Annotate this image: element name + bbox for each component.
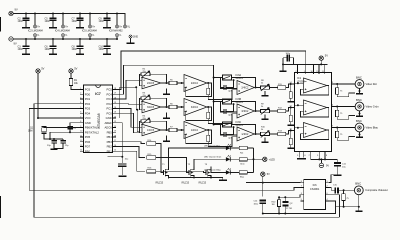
- op-amp 3/4IC2: [237, 104, 255, 118]
- capacitor C13 22p: [54, 139, 69, 149]
- svg-text:5V: 5V: [74, 67, 77, 71]
- ground: [262, 91, 269, 97]
- svg-text:CS4961: CS4961: [310, 187, 320, 191]
- resistor 75R output (row 3): [336, 128, 356, 141]
- node aux2: [136, 109, 138, 111]
- svg-text:23: 23: [114, 112, 116, 114]
- svg-text:19: 19: [114, 126, 116, 128]
- wire LED row to +LED rail: [247, 171, 253, 173]
- svg-text:6: 6: [305, 155, 306, 157]
- ground: [219, 179, 227, 181]
- op-amp 3/4IC4: [184, 99, 207, 116]
- wire pin1 to gnd node: [329, 175, 338, 183]
- node col2 in: [181, 129, 183, 131]
- analog switch IC3B 4066: [222, 98, 243, 104]
- svg-text:6: 6: [80, 112, 81, 114]
- wire IC1 top supply rail: [283, 63, 328, 65]
- svg-text:11: 11: [80, 135, 82, 137]
- svg-text:10: 10: [80, 131, 82, 133]
- node col1 out: [166, 106, 168, 108]
- capacitor C10 100n: [99, 38, 111, 53]
- wire switch left node: [220, 78, 237, 89]
- svg-text:PC3: PC3: [106, 97, 112, 101]
- wire XTAL1: [44, 126, 80, 128]
- svg-text:IC1: IC1: [297, 76, 302, 80]
- node termination: [290, 130, 292, 132]
- svg-text:22: 22: [114, 116, 116, 118]
- wire PB3 to R14: [116, 142, 145, 144]
- pin 14 PB0: [80, 149, 90, 153]
- resistor R18 (Gr&#252;n): [239, 158, 247, 166]
- wire -9V node: [311, 159, 338, 162]
- wire AREF stub: [108, 156, 123, 158]
- ground: [262, 138, 269, 144]
- ground: [163, 113, 170, 120]
- node col2 out: [207, 129, 209, 131]
- resistor R13 75R: [270, 130, 286, 135]
- wire aux net 3: [137, 110, 139, 132]
- pin 7 IC6 left: [301, 186, 304, 188]
- wire LED row 1: [169, 148, 226, 167]
- ground: [103, 27, 111, 29]
- svg-text:PC5: PC5: [106, 88, 112, 92]
- svg-text:100n: 100n: [99, 48, 105, 51]
- svg-text:7: 7: [309, 155, 310, 157]
- svg-text:1M: 1M: [272, 204, 275, 206]
- svg-text:PD0: PD0: [85, 92, 91, 96]
- power pin GND: [129, 35, 138, 43]
- svg-text:PD4: PD4: [85, 111, 91, 115]
- svg-text:18: 18: [114, 135, 116, 137]
- wire col2 feedback loop: [184, 130, 212, 144]
- svg-text:IC7: IC7: [95, 92, 101, 96]
- wire switch left node: [220, 102, 237, 113]
- pin 19 ADC6: [104, 126, 116, 130]
- op-amp buffer IC1-A: [295, 78, 329, 95]
- wire col3 out: [255, 133, 261, 135]
- wire feedback riser col3: [234, 78, 256, 88]
- IC IC1 LT6554: [295, 73, 332, 152]
- svg-text:Composite Videoout: Composite Videoout: [365, 189, 388, 192]
- svg-text:28: 28: [114, 88, 116, 90]
- svg-text:BNC: BNC: [355, 182, 361, 186]
- node R21 bottom: [343, 206, 345, 208]
- pin 13 PD7: [80, 145, 91, 149]
- svg-text:100n: 100n: [18, 48, 24, 51]
- svg-text:9V: 9V: [326, 165, 329, 168]
- svg-text:19: 19: [114, 131, 116, 133]
- node col2 out: [207, 106, 209, 108]
- pin 7 VCC: [80, 116, 91, 120]
- svg-text:2: 2: [296, 71, 297, 73]
- wire col1 output: [161, 106, 170, 108]
- svg-text:3/4IC2: 3/4IC2: [241, 110, 249, 113]
- resistor R1 10k: [69, 79, 78, 86]
- svg-text:GND: GND: [133, 36, 139, 39]
- pin 26 PC3: [106, 97, 116, 101]
- ground: [22, 27, 30, 29]
- capacitor C11 10u: [334, 162, 347, 175]
- wire to col2: [177, 82, 184, 84]
- svg-text:1: 1: [327, 181, 328, 183]
- svg-text:12: 12: [80, 140, 82, 142]
- svg-text:3: 3: [332, 82, 333, 84]
- pin 11 IC1 top: [322, 64, 325, 74]
- svg-text:IC6: IC6: [313, 183, 318, 187]
- power pin V- IC5 LMC6484: [88, 34, 94, 40]
- pin 8 IC6 left: [301, 181, 304, 183]
- svg-text:PD2: PD2: [85, 102, 91, 106]
- node control tap: [213, 124, 215, 126]
- resistor 75R output (row 1): [336, 84, 356, 97]
- wire col2 feedback loop: [184, 107, 212, 121]
- svg-text:GND: GND: [85, 121, 91, 125]
- wire XTAL2: [50, 132, 80, 139]
- transistor T2 IRLZ15: [182, 164, 195, 184]
- wire PB2 to R15: [116, 147, 145, 158]
- wire reset to PC6: [71, 86, 80, 90]
- capacitor C15 100u output: [333, 185, 339, 194]
- analog switch IC3C 4066: [222, 121, 243, 127]
- power pin V+ IC4 LMC6484: [61, 13, 68, 29]
- svg-text:7: 7: [301, 186, 302, 188]
- svg-text:9: 9: [80, 126, 81, 128]
- svg-text:PB5: PB5: [107, 130, 113, 134]
- node +9V supply rail: [9, 8, 125, 25]
- ground: [49, 53, 57, 55]
- svg-text:PC2: PC2: [106, 102, 112, 106]
- pin 16 IC1 top: [311, 64, 314, 74]
- svg-text:8: 8: [301, 181, 302, 183]
- wire col3 out: [255, 87, 261, 89]
- svg-text:BNC: BNC: [356, 98, 362, 102]
- wire to IC1 input: [286, 108, 295, 112]
- pin 16 PB2: [107, 145, 117, 149]
- svg-text:1/4IC5: 1/4IC5: [147, 129, 155, 132]
- node col3 out: [255, 87, 257, 89]
- pin 23 PC0: [106, 111, 116, 115]
- svg-text:GND: GND: [106, 116, 112, 120]
- pin 5 IC6 left: [301, 199, 304, 201]
- capacitor C6 100n: [45, 38, 57, 53]
- wire to IC1 input: [286, 84, 295, 88]
- svg-text:6: 6: [327, 193, 328, 195]
- svg-text:IC4 LMC6484: IC4 LMC6484: [55, 30, 70, 33]
- pin 11 PD5: [80, 135, 91, 139]
- wire frame-left-bottom: [0, 196, 1, 218]
- wire LED row to +LED rail: [247, 158, 253, 160]
- pin 6 IC6 right: [326, 193, 329, 195]
- pin 22 GND: [106, 116, 117, 120]
- svg-text:15: 15: [114, 150, 116, 152]
- capacitor C20 4p7: [220, 127, 233, 140]
- wire pin3 oscillator node: [279, 195, 304, 198]
- resistor R5 1k: [169, 79, 177, 84]
- svg-text:IRLZ15: IRLZ15: [199, 183, 207, 185]
- resistor R6 1k: [169, 103, 177, 108]
- op-amp 2/4IC4: [184, 75, 207, 92]
- resistor termination (row 3): [289, 131, 292, 148]
- pin 7 IC1 bottom: [309, 151, 311, 159]
- svg-text:100n: 100n: [72, 48, 78, 51]
- capacitor C16 10u near XTAL2: [67, 123, 80, 134]
- wire cap to BNC: [339, 189, 355, 191]
- op-amp buffer IC1-B: [295, 100, 329, 117]
- svg-text:PB0: PB0: [85, 149, 91, 153]
- wire common source rail: [169, 177, 223, 178]
- resistor 75R output (row 2): [336, 107, 356, 120]
- svg-text:16: 16: [114, 145, 116, 147]
- connector BNC Video Gr&#252;n: [355, 98, 379, 116]
- svg-text:2/4IC5: 2/4IC5: [147, 82, 155, 85]
- node T3 source: [210, 176, 212, 178]
- svg-text:7: 7: [80, 116, 81, 118]
- svg-text:4: 4: [80, 102, 81, 104]
- svg-text:5: 5: [80, 107, 81, 109]
- ground: [49, 27, 57, 29]
- connector BNC Video Blau: [355, 119, 378, 137]
- ground: [287, 125, 294, 127]
- resistor R16 100R: [147, 168, 156, 173]
- wire crystal bottom: [44, 134, 63, 139]
- pin 3 PD1: [80, 97, 91, 101]
- wire to col2: [177, 129, 184, 131]
- pin 27 PC4: [106, 92, 116, 96]
- transistor T3 IRLZ15: [199, 164, 212, 184]
- node output comp: [343, 189, 345, 191]
- capacitor C9 100n: [99, 13, 111, 28]
- supply +5V (VCC): [36, 67, 45, 74]
- ground: [356, 137, 363, 139]
- node col2 in: [181, 106, 183, 108]
- op-amp 1/4IC4: [184, 122, 207, 139]
- svg-text:PB1: PB1: [107, 149, 113, 153]
- node VCC junction: [37, 117, 39, 119]
- wire PC5 to IC1 (top loop): [116, 51, 306, 89]
- svg-text:4: 4: [332, 104, 333, 106]
- svg-text:3: 3: [80, 97, 81, 99]
- supply +5V (reset pull-up): [69, 67, 78, 74]
- pin 9 IC1 bottom: [317, 151, 320, 160]
- svg-text:PC0: PC0: [106, 111, 112, 115]
- capacitor C19 4p7: [220, 104, 233, 117]
- capacitor C8 100n: [72, 38, 84, 53]
- wire reset pullup top: [70, 73, 72, 78]
- svg-text:PB6/XTAL1: PB6/XTAL1: [85, 126, 100, 130]
- svg-text:LED Cluster Grün: LED Cluster Grün: [204, 156, 222, 159]
- pin 17 PB3: [107, 140, 117, 144]
- svg-text:PC6: PC6: [85, 88, 91, 92]
- wire composite ground link: [336, 206, 360, 208]
- wire feedback riser col3: [234, 125, 256, 135]
- op-amp 2/4IC5: [142, 77, 161, 89]
- node output: [336, 83, 338, 85]
- ground: [287, 148, 294, 150]
- crystal Q2 17.7MHz: [282, 197, 293, 214]
- node output: [336, 106, 338, 108]
- svg-text:2/4IC2: 2/4IC2: [241, 87, 249, 90]
- wire switch right node: [232, 101, 234, 103]
- svg-text:IRLZ15: IRLZ15: [156, 183, 164, 185]
- wire feedback riser col3: [234, 102, 256, 112]
- IC IC6 CS4961: [304, 180, 326, 210]
- svg-text:PC1: PC1: [106, 107, 112, 111]
- pin 1 PC6: [80, 88, 91, 92]
- wire aux net 1: [120, 87, 137, 118]
- svg-text:V-: V-: [92, 34, 94, 37]
- svg-text:AREF: AREF: [104, 121, 112, 125]
- wire LED row to +LED rail: [247, 147, 253, 149]
- node termination: [290, 107, 292, 109]
- svg-text:100n: 100n: [99, 20, 105, 23]
- resistor termination (row 1): [289, 84, 292, 101]
- wire LED to resistor: [230, 158, 239, 160]
- ground: [280, 71, 287, 73]
- svg-text:IC8 MAX492: IC8 MAX492: [109, 30, 123, 33]
- ground: [356, 93, 363, 95]
- resistor termination (row 2): [289, 108, 292, 125]
- op-amp 3/4IC5: [142, 101, 161, 113]
- svg-text:25: 25: [114, 102, 116, 104]
- svg-text:PD7: PD7: [85, 145, 91, 149]
- svg-text:IC5 LMC6484: IC5 LMC6484: [82, 30, 97, 33]
- wire pin6 to bottom bus: [329, 195, 340, 217]
- svg-text:15: 15: [316, 71, 318, 73]
- wire LED row 2: [194, 159, 226, 166]
- pin 2 IC6 right: [326, 186, 329, 188]
- wire cap gnd stub: [282, 64, 284, 70]
- wire pin2 output: [329, 187, 335, 190]
- node +LED: [253, 158, 255, 160]
- power pin V- IC8 MAX492: [115, 34, 121, 40]
- svg-text:V-: V-: [119, 34, 121, 37]
- svg-text:100n: 100n: [45, 48, 51, 51]
- wire R15 to T2 gate: [156, 158, 189, 173]
- wire R14 to T1 gate: [156, 144, 164, 173]
- svg-text:8: 8: [80, 121, 81, 123]
- svg-text:PD3: PD3: [85, 107, 91, 111]
- wire oscillator ground rail: [263, 201, 336, 214]
- capacitor C18 4p7: [220, 80, 233, 93]
- trimmer R10: [261, 127, 270, 138]
- pin 7 IC1 output: [332, 125, 356, 127]
- wire PD3 bus to bottom: [29, 109, 300, 191]
- svg-text:21: 21: [114, 121, 116, 123]
- wire LED to resistor: [230, 147, 239, 149]
- pin 3 IC6 left: [301, 193, 304, 195]
- capacitor C17 10u: [118, 159, 129, 176]
- wire switch right node: [232, 124, 234, 126]
- capacitor C12 22p: [47, 139, 57, 149]
- pin 3 IC1 output: [332, 82, 356, 84]
- ground: [262, 115, 269, 121]
- pin 1 IC6 right: [326, 181, 329, 183]
- LED D2: [226, 157, 230, 161]
- wire +9V rail: [13, 14, 125, 25]
- wire PD2 bus to bottom: [34, 104, 340, 217]
- supply -9V IC1: [319, 158, 329, 167]
- MCU IC7 ATMEGA8: [84, 85, 113, 153]
- pin 2 IC1 top: [296, 64, 298, 74]
- svg-text:3/4IC5: 3/4IC5: [147, 106, 155, 109]
- ground: [287, 101, 294, 103]
- svg-text:BNC: BNC: [356, 119, 362, 123]
- svg-text:13: 13: [80, 145, 82, 147]
- wire col1 output: [161, 82, 170, 84]
- wire switch right node: [232, 77, 234, 79]
- pin 6 PD4: [80, 111, 91, 115]
- svg-text:1: 1: [304, 71, 305, 73]
- pin 19 PB5: [107, 130, 117, 134]
- svg-text:LED Cluster Rot: LED Cluster Rot: [204, 144, 220, 147]
- pin 2 PD0: [80, 92, 91, 96]
- pin 8 IC1 bottom: [324, 151, 327, 160]
- resistor divider R (row 1): [207, 83, 237, 100]
- svg-text:16: 16: [311, 71, 313, 73]
- svg-text:2: 2: [80, 93, 81, 95]
- wire to col2: [177, 106, 184, 108]
- connector BNC Video Rot: [355, 75, 377, 93]
- wire T2 source: [193, 177, 195, 178]
- node switch right: [233, 126, 235, 128]
- crystal Q1 16MHz: [28, 126, 47, 134]
- wire PC4 to switch control: [116, 65, 214, 124]
- node col2 in: [181, 82, 183, 84]
- pin 21 AREF: [104, 121, 116, 125]
- node col2 out: [207, 82, 209, 84]
- svg-text:+LED: +LED: [269, 158, 275, 161]
- svg-text:3/4IC4: 3/4IC4: [191, 106, 199, 109]
- svg-text:IRLZ15: IRLZ15: [182, 183, 190, 185]
- resistor R7 1k: [169, 126, 177, 131]
- svg-text:5V: 5V: [325, 54, 328, 58]
- svg-text:Rot: Rot: [240, 151, 244, 154]
- ground: [301, 158, 306, 160]
- capacitor C3 100n: [18, 38, 30, 53]
- ground: [297, 158, 302, 160]
- op-amp 1/4IC5: [142, 124, 161, 136]
- pin 5 PD3: [80, 107, 91, 111]
- svg-text:100n: 100n: [18, 20, 24, 23]
- node -9V supply rail: [9, 37, 117, 46]
- pin 4 IC1 output: [332, 104, 356, 106]
- capacitor C14 100u: [254, 200, 267, 215]
- analog switch IC3A 4066: [222, 74, 243, 80]
- ground: [127, 43, 135, 45]
- node aux1: [135, 86, 137, 88]
- svg-text:24: 24: [114, 107, 116, 109]
- terminal X1 +9V: [9, 11, 13, 15]
- wire to +LED supply: [254, 158, 263, 160]
- capacitor C7 100n: [72, 13, 84, 28]
- node control tap: [213, 77, 215, 79]
- wire PC2 to opamp row2: [116, 103, 142, 105]
- wire feedback riser: [150, 74, 167, 83]
- svg-text:16M: 16M: [28, 130, 33, 132]
- node supply left: [282, 63, 284, 65]
- svg-text:14: 14: [80, 150, 82, 152]
- ground: [103, 53, 111, 55]
- power pin V+ IC8 MAX492: [115, 13, 122, 29]
- ground: [22, 53, 30, 55]
- svg-text:PB3: PB3: [107, 140, 113, 144]
- svg-text:PB7/XTAL2: PB7/XTAL2: [85, 130, 100, 134]
- pin 24 PC1: [106, 107, 116, 111]
- node col3 out: [255, 110, 257, 112]
- wire to IC1 input: [286, 131, 295, 135]
- wire control tap: [214, 124, 221, 126]
- svg-text:5V: 5V: [267, 173, 270, 176]
